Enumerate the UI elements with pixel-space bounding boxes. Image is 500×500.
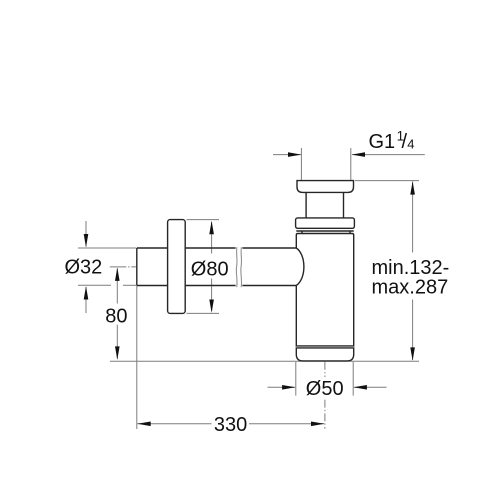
svg-text:80: 80 [105,305,127,327]
svg-text:330: 330 [214,414,247,436]
svg-text:G1: G1 [369,131,396,153]
svg-text:Ø80: Ø80 [191,259,229,281]
svg-text:Ø32: Ø32 [65,257,103,279]
svg-text:max.287: max.287 [372,277,449,299]
svg-text:Ø50: Ø50 [306,378,344,400]
svg-text:4: 4 [407,137,414,152]
